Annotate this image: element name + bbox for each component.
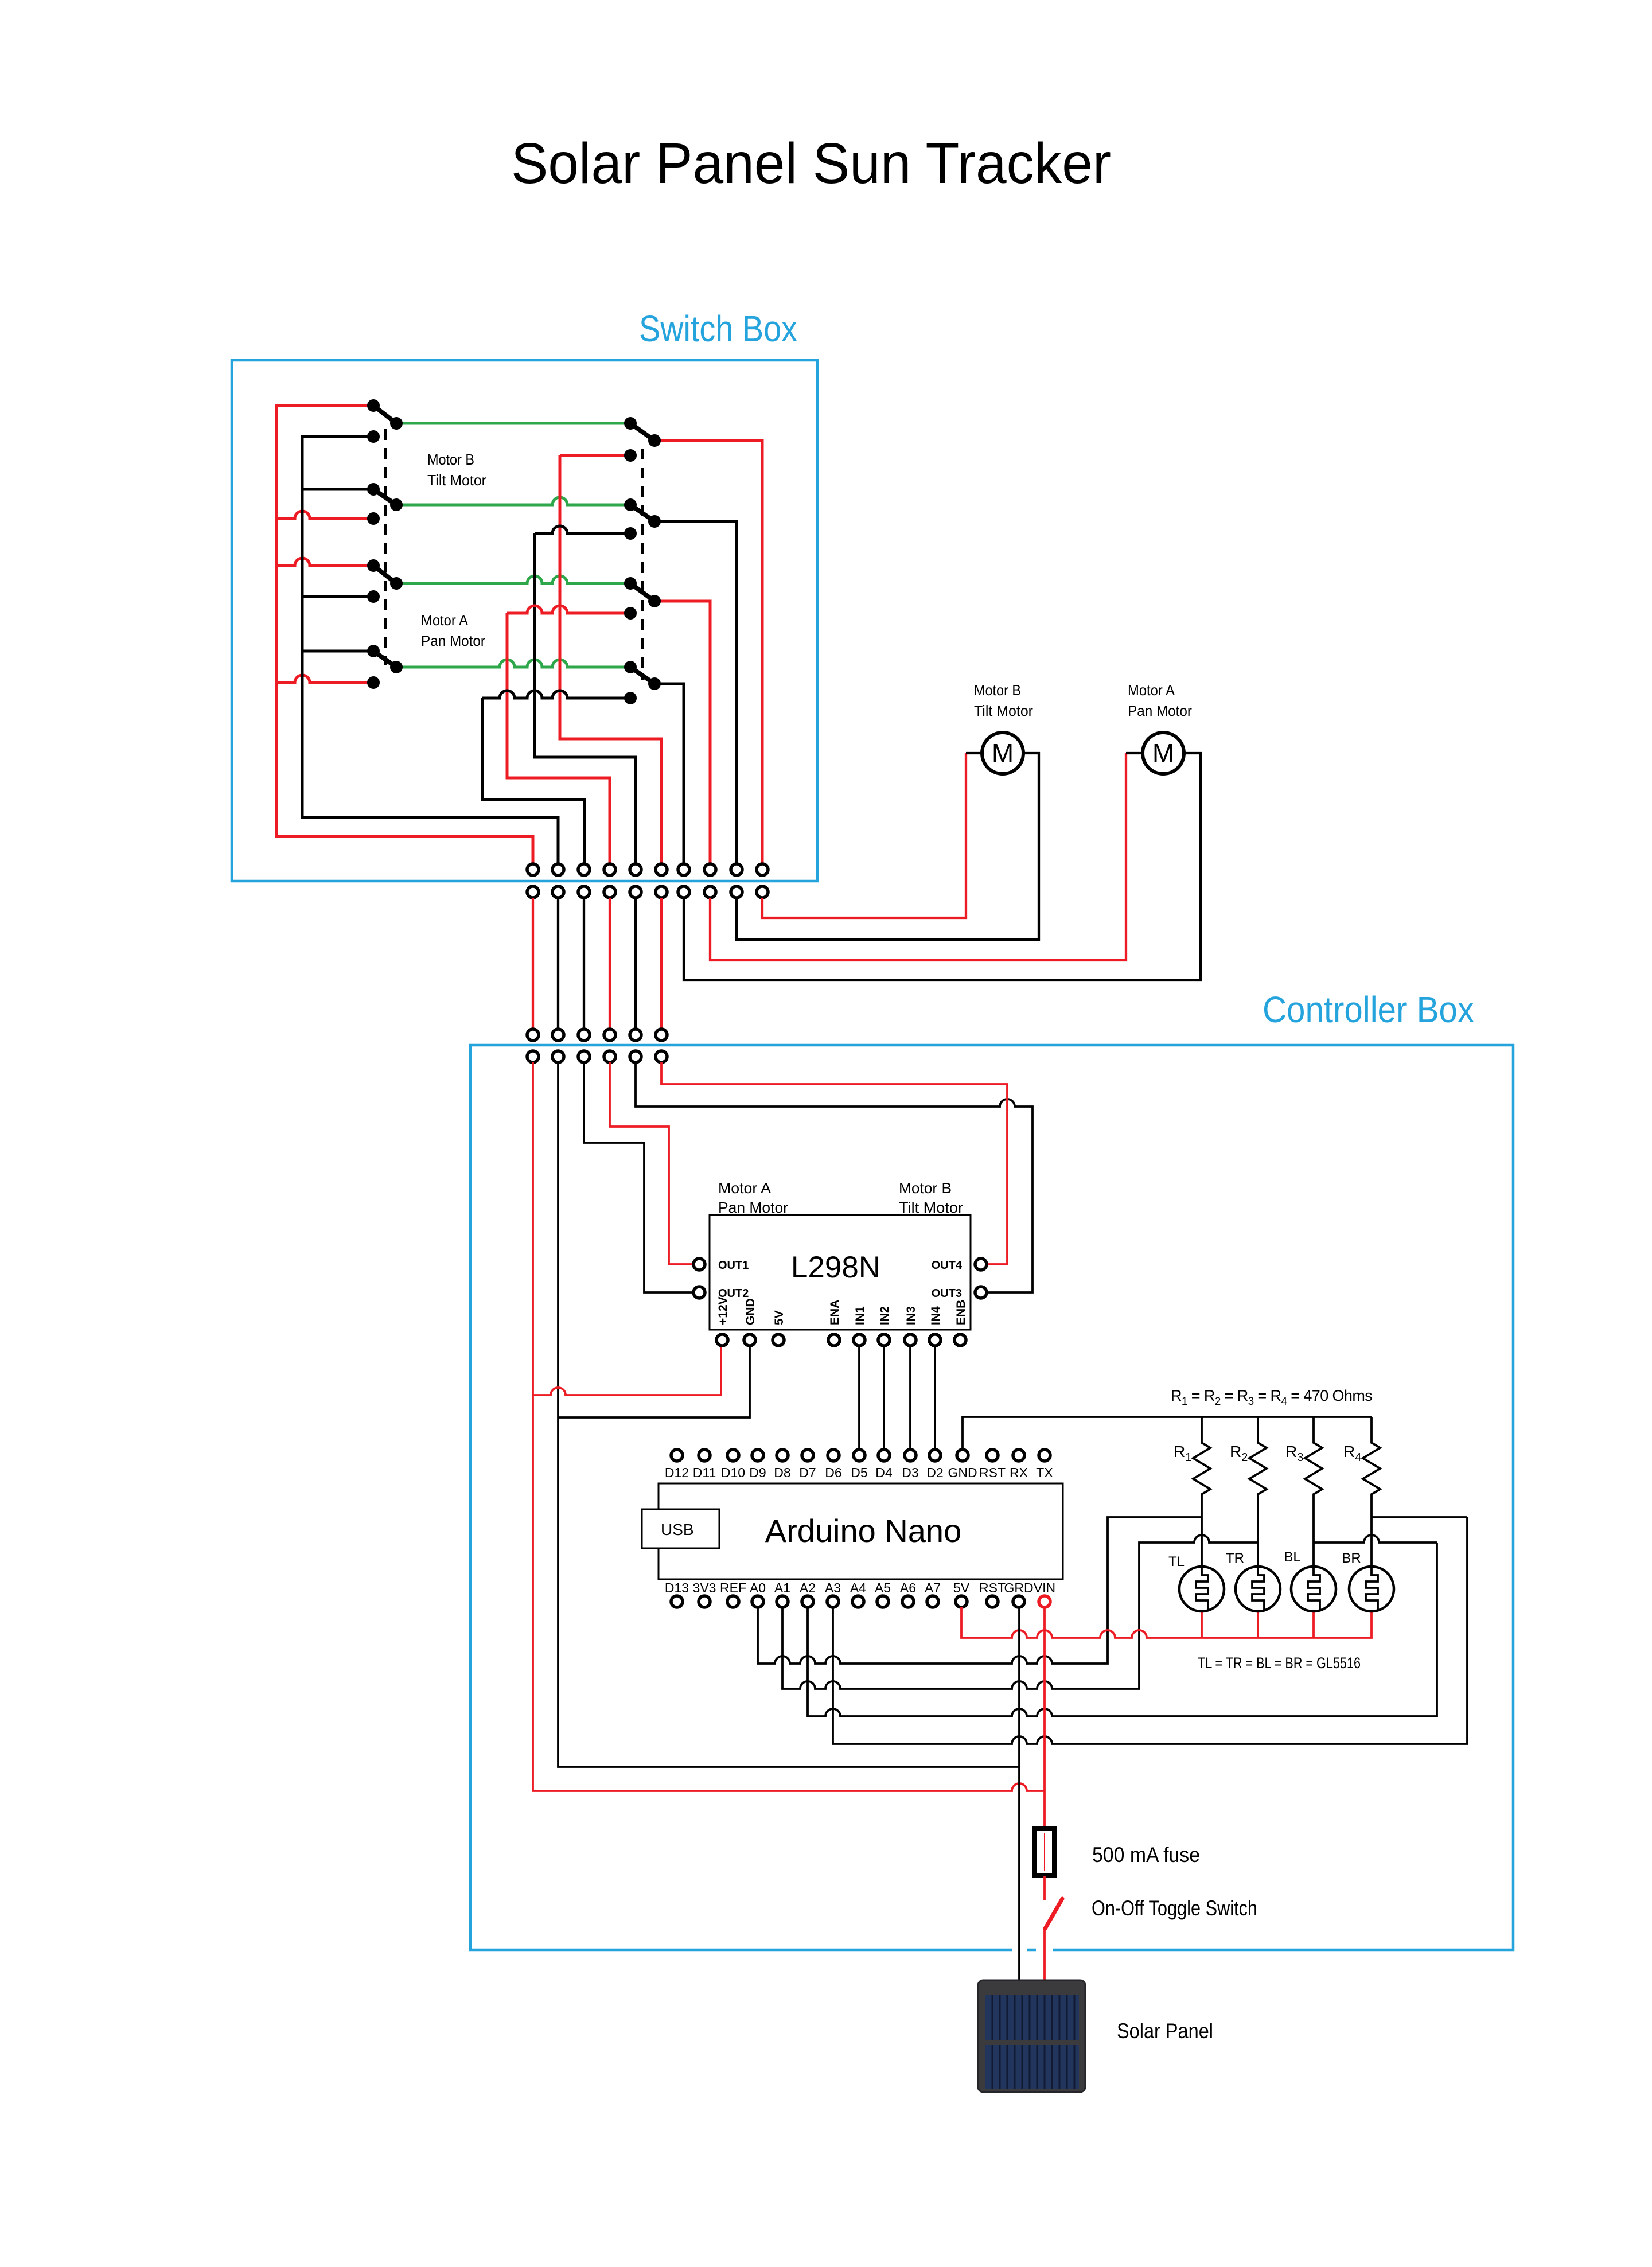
pin IN4 (929, 1334, 941, 1346)
svg-text:A3: A3 (825, 1580, 841, 1595)
USB connector (642, 1509, 719, 1548)
wire: red output SW5 to T10 (654, 441, 762, 864)
motor M Motor A (Pan Motor) (1143, 733, 1184, 774)
wire: T7 black to Motor A - (684, 753, 1201, 980)
svg-text:A4: A4 (850, 1580, 866, 1595)
svg-text:M: M (992, 738, 1014, 768)
svg-text:TR: TR (1226, 1551, 1244, 1566)
wire: black return bus left (to T2) (302, 437, 558, 864)
wire: green link SW3 to SW7 (two hops) (396, 576, 630, 583)
wire: T2 black bus down the left side to solar panel return (558, 1062, 1019, 1767)
wire: A3 to R4/BR junction (hops) (833, 1517, 1467, 1744)
switch mechanical link (right column, dashed) (641, 449, 644, 680)
solar panel PV1 (978, 1980, 1085, 2092)
toggle switch S1 On-Off (lever) (1045, 1899, 1062, 1929)
resistor R2 470 Ohms (1249, 1417, 1267, 1567)
wire: green link SW1 to SW5 (396, 422, 630, 425)
wire: TR red stub (1257, 1611, 1259, 1638)
wire: A1 to R2/TR junction (hops) (782, 1535, 1258, 1689)
wire: red stub fuse to toggle (1043, 1876, 1046, 1900)
LDR TR GL5516 (1236, 1567, 1280, 1611)
resistor R1 470 Ohms (1193, 1417, 1210, 1567)
svg-text:D6: D6 (825, 1465, 841, 1480)
svg-text:Controller Box: Controller Box (1263, 989, 1474, 1030)
svg-text:OUT1: OUT1 (718, 1259, 749, 1272)
svg-text:Motor B: Motor B (974, 681, 1021, 699)
switch SW1 lever (373, 406, 396, 423)
switch SW5 contacts (624, 417, 637, 430)
svg-text:A6: A6 (900, 1580, 916, 1595)
svg-text:D5: D5 (851, 1465, 867, 1480)
switch SW1 contacts (367, 399, 380, 412)
svg-text:D12: D12 (665, 1465, 689, 1480)
switch SW2 contacts (367, 483, 380, 496)
svg-text:Pan Motor: Pan Motor (1128, 702, 1192, 719)
wire: GND black from T2 bus to L298N (558, 1346, 750, 1417)
Controller Box boundary (470, 1045, 1513, 1950)
svg-text:A1: A1 (774, 1580, 790, 1595)
svg-text:GRD: GRD (1004, 1580, 1033, 1595)
svg-text:L298N: L298N (791, 1251, 880, 1284)
svg-text:Motor A: Motor A (718, 1179, 772, 1197)
IC U1 L298N body (710, 1215, 971, 1330)
svg-text:500 mA fuse: 500 mA fuse (1092, 1843, 1200, 1867)
wire: black branch to switch SW2 upper contact (302, 488, 373, 491)
svg-text:5V: 5V (773, 1310, 786, 1325)
switch SW4 contacts (367, 645, 380, 657)
svg-text:D2: D2 (926, 1465, 943, 1480)
wire: L298N IN3 to Arduino D3 (909, 1346, 911, 1450)
wire: green link SW2 to SW6 (hop) (396, 497, 630, 505)
wire: T2 black jumper to group 2 (557, 898, 559, 1029)
svg-text:Tilt Motor: Tilt Motor (427, 472, 486, 489)
svg-text:A7: A7 (925, 1580, 941, 1595)
svg-text:GND: GND (948, 1465, 977, 1480)
white gaps where wires cross controller box bottom edge (1012, 1945, 1027, 1955)
wire: L298N IN2 to Arduino D4 (883, 1346, 885, 1450)
wire: Motor A left stub (1126, 752, 1144, 754)
wire: TL red stub (1201, 1611, 1203, 1638)
svg-text:TL: TL (1168, 1554, 1185, 1569)
wire: VIN red down to fuse (1043, 1607, 1046, 1829)
wire: L298N IN4 to Arduino D2 (934, 1346, 936, 1450)
terminal strip group 1 row 2 (outside switch box) (527, 886, 768, 898)
pin ENB (954, 1334, 966, 1346)
svg-text:IN3: IN3 (905, 1306, 918, 1325)
switch SW4 lever (373, 651, 396, 667)
svg-text:+12V: +12V (716, 1296, 730, 1325)
svg-text:REF: REF (720, 1580, 746, 1595)
wire: T4 red to L298N OUT1 (610, 1062, 693, 1264)
pin 5V (773, 1334, 784, 1346)
svg-text:Switch Box: Switch Box (639, 308, 797, 349)
switch SW7 lever (630, 583, 654, 601)
wire: T3 black to L298N OUT2 (584, 1062, 693, 1292)
svg-text:Tilt Motor: Tilt Motor (899, 1199, 963, 1216)
svg-text:D13: D13 (665, 1580, 689, 1595)
svg-text:IN1: IN1 (854, 1306, 867, 1325)
wire: red branch to switch SW3 upper contact (hop over black bus) (276, 558, 373, 566)
switch SW2 lever (373, 489, 396, 505)
wire: junction R3/BL to A2 riser (hop over R4 leg) (1314, 1535, 1437, 1543)
LDR TL GL5516 (1179, 1567, 1224, 1611)
wire: GRD black to solar panel (1018, 1607, 1020, 1984)
svg-text:5V: 5V (953, 1580, 970, 1595)
svg-text:OUT4: OUT4 (932, 1259, 963, 1272)
wire: black feed SW6 lower contact (hop), down to T5 (535, 526, 636, 864)
wire: red supply bus left (to T1) (276, 406, 533, 864)
terminal strip group 2 row 1 (above controller box edge) (527, 1029, 667, 1041)
svg-text:RX: RX (1010, 1465, 1028, 1480)
svg-text:TX: TX (1036, 1465, 1053, 1480)
pin IN3 (905, 1334, 916, 1346)
LDR BL GL5516 (1291, 1567, 1336, 1611)
wire: black branch to switch SW3 lower contact (302, 595, 373, 598)
wire: T6 red to L298N OUT4 (661, 1062, 1007, 1264)
svg-text:Arduino Nano: Arduino Nano (765, 1513, 961, 1549)
wire: red feed SW5 lower contact, down to T6 (560, 455, 661, 864)
wire: Motor B left stub (966, 752, 983, 754)
svg-text:D4: D4 (875, 1465, 893, 1480)
switch mechanical link (left column, dashed) (384, 429, 387, 665)
wire: L298N IN1 to Arduino D5 (858, 1346, 860, 1450)
wire: red branch to switch SW4 lower contact (hop over black bus) (276, 675, 373, 683)
svg-text:VIN: VIN (1034, 1580, 1055, 1595)
pin GND (744, 1334, 755, 1346)
wire: T5 black jumper to group 2 (634, 898, 637, 1029)
wire: T5 black to L298N OUT3 (hop over OUT4 wire) (636, 1062, 1032, 1292)
wire: green link SW4 to SW8 (three hops) (396, 660, 630, 667)
Arduino top pin row D12..TX (671, 1450, 683, 1461)
svg-text:OUT3: OUT3 (932, 1287, 962, 1300)
wire: red output SW7 to T8 (654, 601, 710, 864)
switch SW8 lever (630, 667, 654, 684)
resistor R3 470 Ohms (1305, 1417, 1322, 1567)
svg-text:Motor B: Motor B (427, 451, 474, 468)
svg-text:D7: D7 (799, 1465, 816, 1480)
wire: T10 red to Motor B + (762, 753, 966, 918)
wire: red feed SW7 lower contact (two hops), down to T4 (507, 606, 630, 864)
terminal strip group 1 row 1 (inside switch box) (527, 864, 768, 875)
wire: BL red stub (1312, 1611, 1315, 1638)
wire: T6 red jumper to group 2 (660, 898, 663, 1029)
pin VIN (red) (1039, 1596, 1050, 1607)
svg-text:TL = TR = BL = BR = GL5516: TL = TR = BL = BR = GL5516 (1198, 1654, 1361, 1672)
svg-text:Tilt Motor: Tilt Motor (974, 702, 1033, 719)
svg-text:Pan Motor: Pan Motor (718, 1199, 788, 1216)
wire: T4 red jumper to group 2 (609, 898, 611, 1029)
svg-text:A5: A5 (875, 1580, 891, 1595)
fuse F1 500 mA (1035, 1829, 1054, 1876)
svg-text:D11: D11 (693, 1465, 716, 1480)
wire: black branch to switch SW4 upper contact (302, 650, 373, 653)
switch SW3 lever (373, 566, 396, 583)
svg-text:GND: GND (744, 1298, 757, 1325)
wire: T8 red to Motor A + (710, 753, 1126, 960)
IC U2 Arduino Nano body (659, 1483, 1063, 1579)
wire: red branch to switch SW2 lower contact (hop over black bus) (276, 511, 373, 519)
svg-text:Motor A: Motor A (1128, 681, 1175, 699)
svg-text:IN4: IN4 (929, 1306, 942, 1325)
svg-text:M: M (1152, 738, 1174, 768)
LDR BR GL5516 (1349, 1567, 1394, 1611)
pin OUT2 (693, 1287, 705, 1298)
wire: black output SW6 to T9 (654, 521, 737, 864)
wire: Arduino GND bus to resistor network (963, 1417, 1372, 1450)
svg-text:BR: BR (1342, 1551, 1361, 1566)
svg-text:On-Off Toggle Switch: On-Off Toggle Switch (1092, 1896, 1257, 1920)
resistor R4 470 Ohms (1363, 1417, 1380, 1567)
switch SW6 lever (630, 505, 654, 521)
pin IN2 (878, 1334, 890, 1346)
svg-text:ENA: ENA (828, 1300, 841, 1325)
svg-text:RST: RST (979, 1580, 1006, 1595)
wire: T3 black jumper to group 2 (583, 898, 585, 1029)
svg-text:Motor A: Motor A (421, 611, 469, 629)
wire: T1 red bus down the left side to toggle switch (hop over GRD wire) (533, 1062, 1045, 1791)
motor M Motor B (Tilt Motor) (982, 733, 1023, 774)
wire: A0 to R1/TL junction (hops) (758, 1517, 1202, 1664)
wire: T1 red jumper to group 2 (532, 898, 534, 1029)
switch SW7 contacts (624, 577, 637, 590)
svg-text:ENB: ENB (954, 1300, 968, 1325)
svg-text:IN2: IN2 (878, 1306, 891, 1325)
wire: junction R4/BR to A3 riser (1372, 1516, 1467, 1518)
wire: +12V red from T1 bus to L298N (hop over T2 bus) (533, 1346, 721, 1395)
switch SW5 lever (630, 423, 654, 441)
pin OUT3 (975, 1287, 987, 1298)
terminal strip group 2 row 2 (inside controller box) (527, 1051, 667, 1062)
wire: T9 black to Motor B - (737, 753, 1039, 940)
svg-text:D3: D3 (902, 1465, 918, 1480)
svg-text:D8: D8 (774, 1465, 790, 1480)
pin IN1 (854, 1334, 865, 1346)
svg-text:BL: BL (1284, 1549, 1300, 1565)
switch SW6 contacts (624, 498, 637, 511)
wire: A2 to R3/BL junction (hops) (808, 1543, 1437, 1716)
Switch Box boundary (232, 360, 817, 881)
pin +12V (716, 1334, 728, 1346)
pin OUT1 (693, 1259, 705, 1270)
Arduino bottom pin row D13..VIN (671, 1596, 683, 1607)
wire: black feed SW8 lower contact (three hops), down to T3 (482, 691, 630, 864)
svg-text:Pan Motor: Pan Motor (421, 632, 485, 649)
svg-text:D9: D9 (749, 1465, 766, 1480)
svg-text:RST: RST (979, 1465, 1006, 1480)
svg-text:3V3: 3V3 (693, 1580, 716, 1595)
switch SW3 contacts (367, 559, 380, 572)
svg-text:D10: D10 (721, 1465, 745, 1480)
svg-text:Solar Panel Sun Tracker: Solar Panel Sun Tracker (511, 131, 1111, 196)
pin OUT4 (975, 1259, 987, 1270)
svg-text:A0: A0 (750, 1580, 766, 1595)
switch SW8 contacts (624, 661, 637, 673)
svg-text:A2: A2 (800, 1580, 816, 1595)
svg-text:Solar Panel: Solar Panel (1117, 2019, 1213, 2043)
wire: black output SW8 to T7 (654, 684, 684, 864)
svg-text:USB: USB (661, 1521, 694, 1538)
wire: red toggle to solar panel (1043, 1927, 1046, 1984)
svg-text:Motor B: Motor B (899, 1179, 952, 1197)
pin ENA (828, 1334, 840, 1346)
wire: 5V red bus to LDR commons (hops) (961, 1607, 1372, 1638)
